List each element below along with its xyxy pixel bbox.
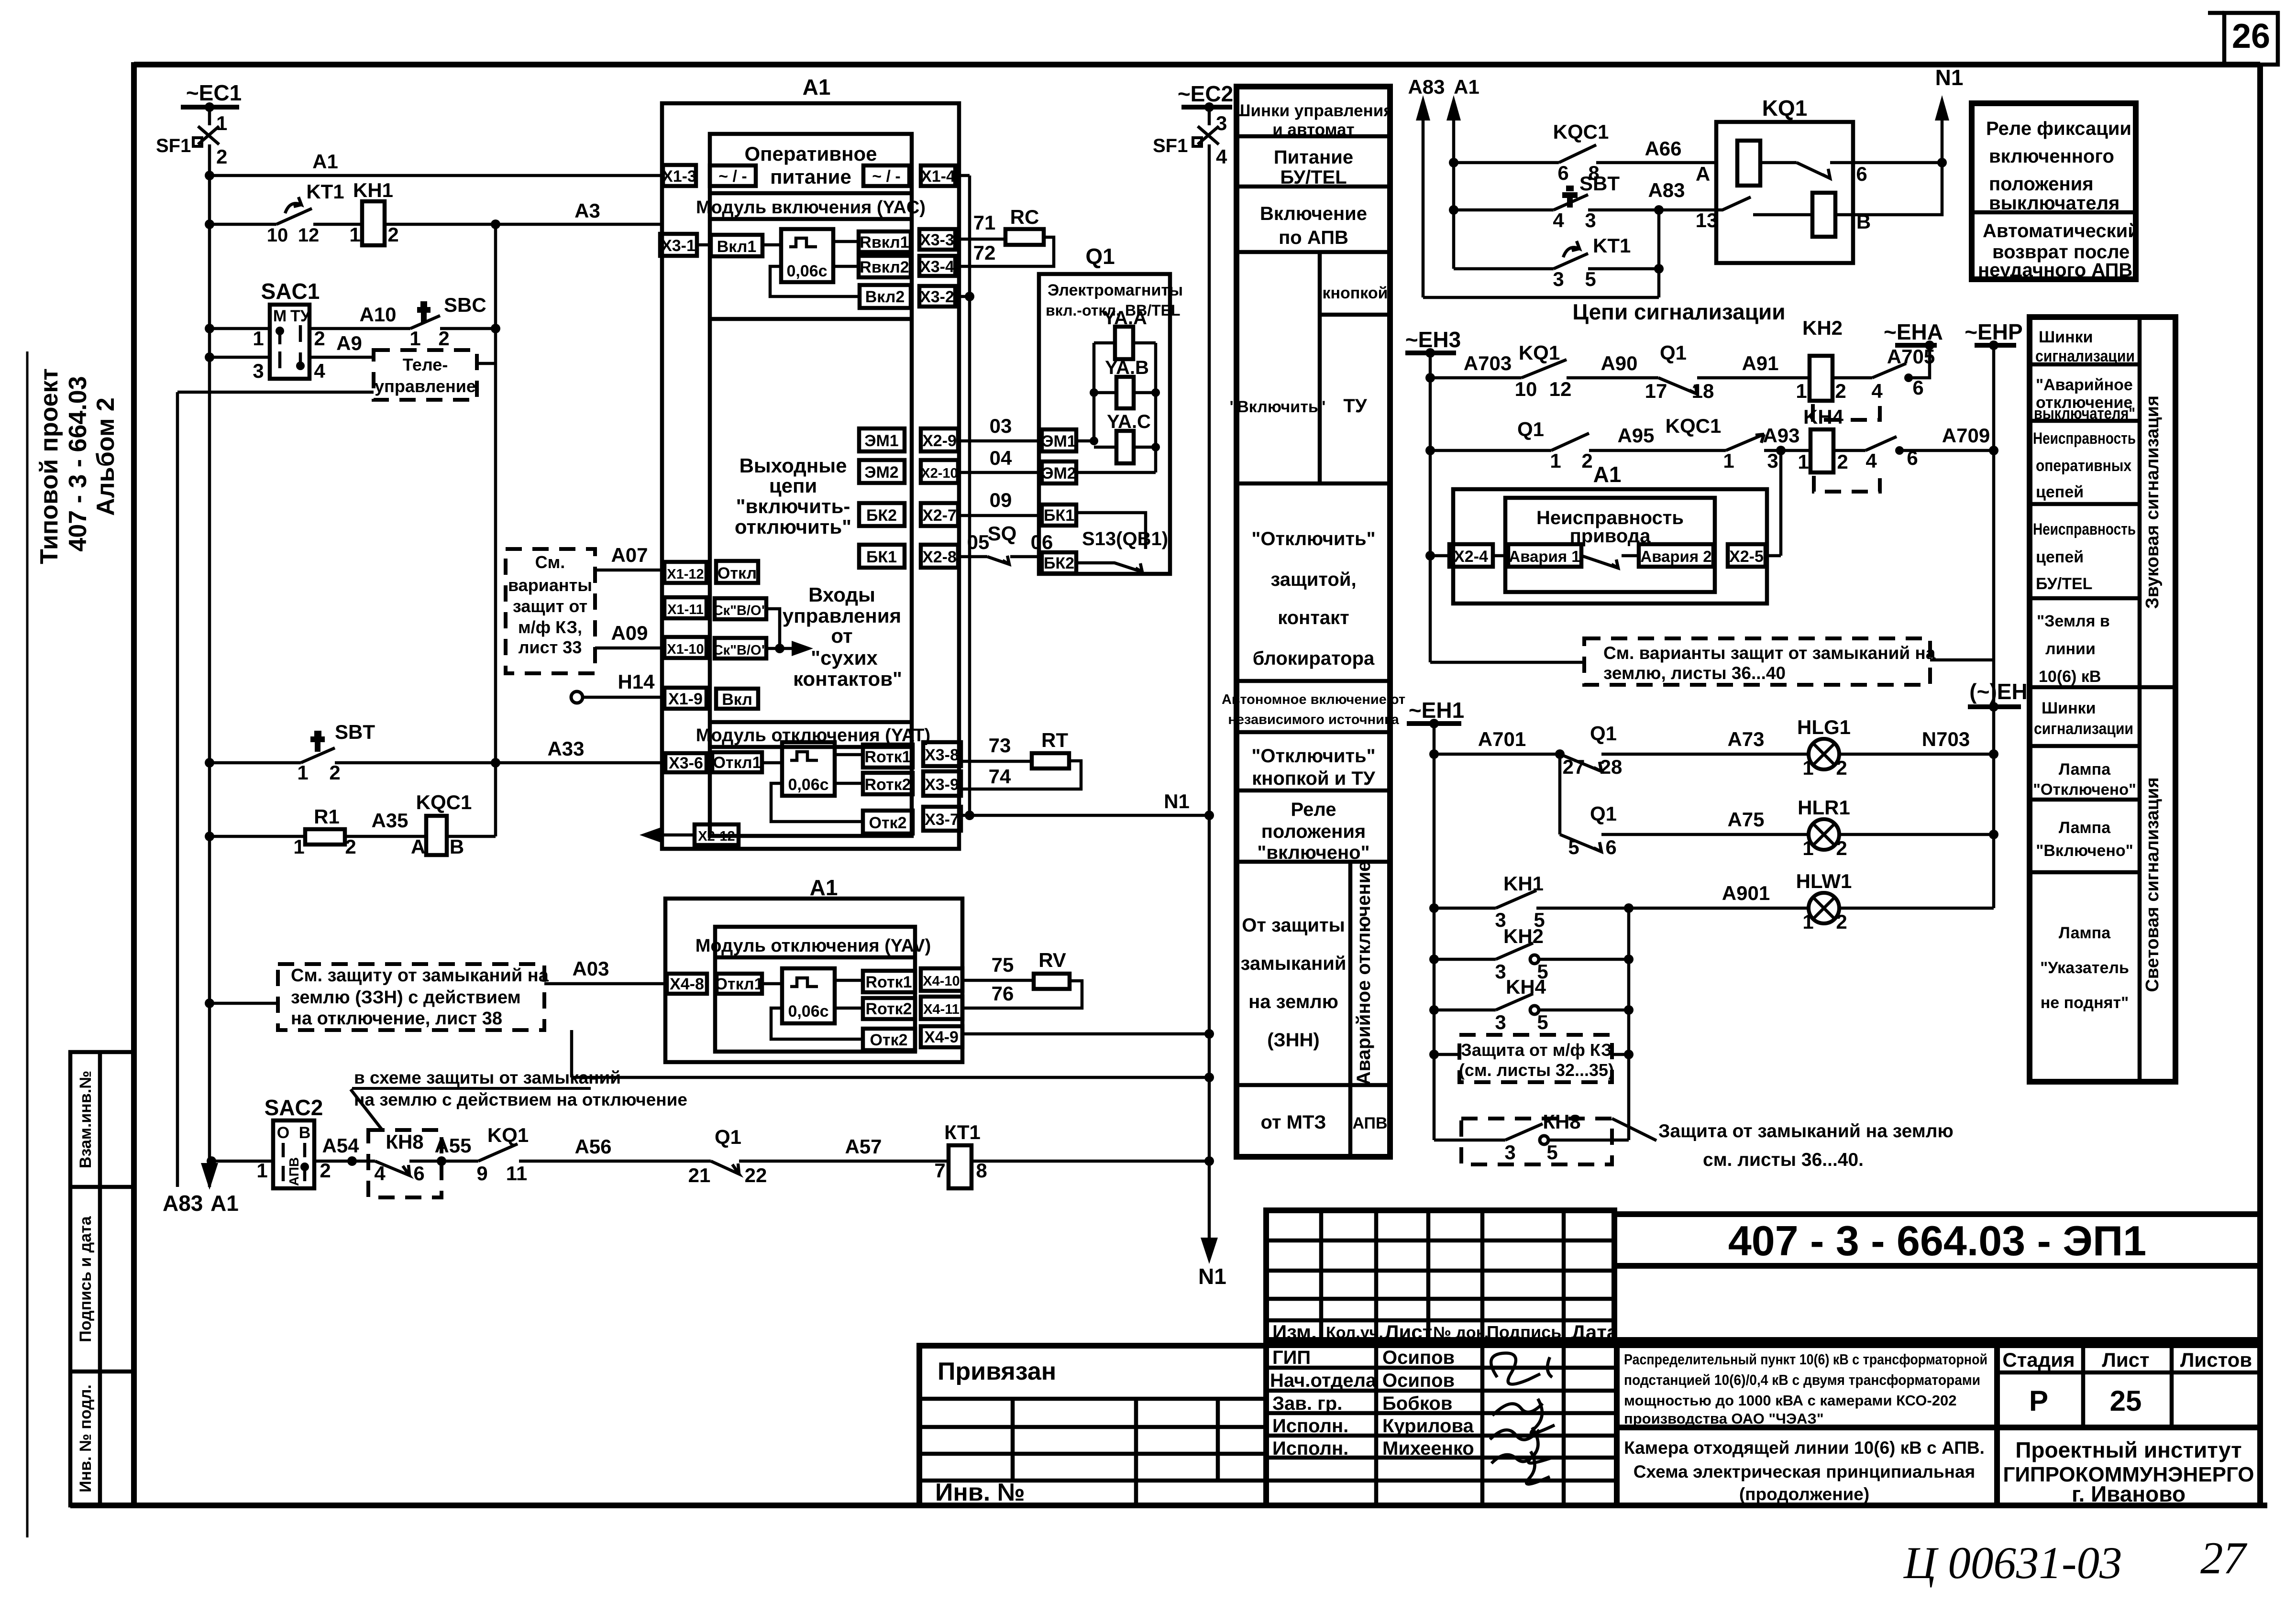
svg-text:кнопкой: кнопкой <box>1322 284 1388 302</box>
svg-text:76: 76 <box>992 982 1014 1005</box>
svg-text:A1: A1 <box>1454 76 1479 98</box>
svg-text:3: 3 <box>1495 960 1506 983</box>
title block: stage/sheet cells <box>1997 1345 2260 1506</box>
svg-text:2: 2 <box>216 145 227 168</box>
svg-text:X3-4: X3-4 <box>920 258 954 276</box>
svg-text:Курилова: Курилова <box>1382 1415 1474 1437</box>
fault contact Авария 1 / Авария 2 <box>1493 544 1713 568</box>
svg-text:КН8: КН8 <box>1543 1110 1580 1133</box>
svg-text:Михеенко: Михеенко <box>1382 1438 1474 1459</box>
svg-text:X3-8: X3-8 <box>925 746 959 764</box>
svg-text:28: 28 <box>1600 756 1623 778</box>
svg-text:4: 4 <box>374 1162 386 1185</box>
Q1 internal terminal БК2 + S13(QB1) contact <box>1042 528 1168 573</box>
lamp HLW1 row A901 + contact KH1 <box>1429 870 1994 933</box>
svg-text:N1: N1 <box>1935 65 1964 90</box>
wire SAC1 row2 to telecontrol <box>205 332 374 362</box>
svg-text:KH4: KH4 <box>1803 406 1844 428</box>
svg-text:"Аварийное: "Аварийное <box>2036 376 2133 394</box>
svg-text:Аварийное отключение: Аварийное отключение <box>1353 861 1374 1086</box>
svg-text:ЭМ2: ЭМ2 <box>864 463 898 482</box>
svg-text:A95: A95 <box>1617 424 1654 447</box>
svg-text:Лист: Лист <box>2102 1349 2149 1371</box>
rotated project designation at sheet left <box>35 368 120 564</box>
svg-text:~EC2: ~EC2 <box>1178 81 1233 106</box>
svg-text:3: 3 <box>1495 1011 1506 1033</box>
svg-text:варианты: варианты <box>508 575 592 595</box>
svg-text:A91: A91 <box>1742 352 1778 374</box>
svg-text:Лампа: Лампа <box>2059 819 2111 837</box>
contact KH2 row <box>1429 925 1634 983</box>
svg-text:3: 3 <box>1767 450 1778 472</box>
svg-text:6: 6 <box>1856 163 1867 185</box>
svg-text:SBT: SBT <box>335 721 375 743</box>
svg-text:(~)EH: (~)EH <box>1969 679 2027 704</box>
svg-text:Подпись: Подпись <box>1487 1322 1561 1342</box>
svg-text:12: 12 <box>298 225 320 246</box>
svg-text:X1-10: X1-10 <box>667 642 704 657</box>
svg-text:A66: A66 <box>1645 137 1681 160</box>
resistor RC loop <box>955 206 1054 266</box>
left long vertical (A83 net from telecontrol) <box>163 392 203 1216</box>
svg-text:Стадия: Стадия <box>2002 1349 2075 1371</box>
svg-text:М: М <box>273 307 287 325</box>
resistor RT loop <box>961 729 1081 789</box>
node ~EC2 supply <box>1178 81 1233 125</box>
svg-text:0,06с: 0,06с <box>788 776 828 794</box>
svg-text:2: 2 <box>1836 757 1847 779</box>
svg-text:"сухих: "сухих <box>811 647 878 669</box>
node ~EH1 supply <box>1407 698 1464 1140</box>
svg-text:27: 27 <box>2200 1533 2248 1583</box>
terminal X1-10 Ск"В/О" wire A09 <box>595 622 813 658</box>
svg-text:6: 6 <box>413 1162 424 1185</box>
svg-text:Ц 00631-03: Ц 00631-03 <box>1903 1537 2122 1588</box>
svg-text:KQ1: KQ1 <box>1762 96 1808 121</box>
svg-text:SQ: SQ <box>988 522 1017 545</box>
pulse timer box 0,06с (YAV) <box>771 968 863 1039</box>
svg-text:A10: A10 <box>359 303 396 326</box>
svg-text:Q1: Q1 <box>1085 244 1115 269</box>
output boxes Rотк1 Rотк2 Отк2 (YAV) <box>863 971 915 1050</box>
terminal X1-11 Ск"В/О" <box>664 597 780 648</box>
svg-text:Инв. № подл.: Инв. № подл. <box>77 1384 95 1492</box>
terminal X1-4 <box>921 165 970 186</box>
svg-text:SF1: SF1 <box>1153 135 1188 156</box>
svg-text:X4-8: X4-8 <box>670 975 704 993</box>
svg-text:KT1: KT1 <box>1593 234 1631 257</box>
svg-text:A07: A07 <box>611 544 648 566</box>
svg-text:Rвкл1: Rвкл1 <box>860 233 909 252</box>
terminal pair ЭМ1 / X2-9 wire 03 <box>859 415 1042 451</box>
svg-text:X3-9: X3-9 <box>925 776 959 794</box>
svg-text:БУ/TEL: БУ/TEL <box>2036 575 2092 593</box>
svg-text:не поднят": не поднят" <box>2041 994 2129 1012</box>
svg-text:4: 4 <box>1871 380 1883 402</box>
svg-text:A33: A33 <box>547 737 584 760</box>
title block: document description cells <box>1617 1345 2260 1505</box>
svg-text:1: 1 <box>216 112 227 134</box>
left attach block Привязан / Инв № <box>919 1346 1266 1506</box>
svg-text:Зав. гр.: Зав. гр. <box>1272 1393 1342 1414</box>
svg-text:KH4: KH4 <box>1506 976 1546 998</box>
svg-text:KQ1: KQ1 <box>1519 341 1560 364</box>
svg-text:A35: A35 <box>371 809 408 832</box>
svg-text:0,06с: 0,06с <box>786 262 827 280</box>
svg-text:О: О <box>277 1124 289 1142</box>
svg-text:Rотк1: Rотк1 <box>865 973 912 991</box>
svg-text:Реле фиксации: Реле фиксации <box>1986 118 2131 139</box>
svg-text:4: 4 <box>1216 145 1227 168</box>
svg-text:17: 17 <box>1645 380 1667 402</box>
svg-text:1: 1 <box>1802 757 1813 779</box>
contact Q1 (bottom row) <box>688 1126 949 1186</box>
svg-text:R1: R1 <box>314 805 340 828</box>
svg-text:Схема электрическая принципиал: Схема электрическая принципиальная <box>1634 1462 1975 1481</box>
svg-text:Теле-: Теле- <box>403 355 448 374</box>
svg-text:Авария 2: Авария 2 <box>1640 548 1711 565</box>
svg-text:сигнализации: сигнализации <box>2035 347 2135 365</box>
svg-text:Распределительный пункт 10(6): Распределительный пункт 10(6) кВ с транс… <box>1624 1351 1987 1368</box>
svg-text:04: 04 <box>990 447 1012 469</box>
svg-text:2: 2 <box>1835 380 1846 402</box>
svg-text:A93: A93 <box>1763 424 1799 447</box>
node (~)EH <box>1968 679 2028 712</box>
terminal X3-6 Откл1 <box>665 752 782 772</box>
svg-text:землю, листы 36...40: землю, листы 36...40 <box>1603 663 1786 683</box>
note text в схеме защиты <box>351 1068 687 1130</box>
svg-text:73: 73 <box>989 734 1011 757</box>
svg-text:~EHA: ~EHA <box>1884 319 1943 344</box>
svg-text:A55: A55 <box>434 1134 471 1157</box>
title block: designation cell 407-3-664.03-ЭП1 <box>1614 1214 2260 1340</box>
left stamp column (Взам.инв.№ / Подпись и дата / Инв.№ подл.) <box>70 1052 134 1505</box>
svg-text:Инв. №: Инв. № <box>935 1479 1025 1506</box>
svg-text:SBC: SBC <box>444 294 486 316</box>
svg-text:A56: A56 <box>574 1135 611 1158</box>
control inputs: terminal X1-12 Откл wire A07 <box>595 544 758 583</box>
svg-text:от: от <box>831 625 852 647</box>
svg-text:"Включено": "Включено" <box>2036 842 2133 860</box>
svg-text:RT: RT <box>1041 729 1068 751</box>
svg-text:X2-5: X2-5 <box>1729 548 1764 566</box>
svg-text:Q1: Q1 <box>1590 802 1617 825</box>
svg-text:X3-1: X3-1 <box>661 237 695 255</box>
svg-text:10: 10 <box>267 225 288 246</box>
svg-text:положения: положения <box>1261 821 1366 842</box>
svg-text:B: B <box>450 835 464 858</box>
svg-text:A57: A57 <box>845 1135 882 1158</box>
svg-text:SAC1: SAC1 <box>261 279 320 304</box>
svg-text:Модуль отключения (YAV): Модуль отключения (YAV) <box>695 936 931 956</box>
terminals X4-10 X4-11 X4-9 <box>921 968 962 1047</box>
svg-text:Подпись и дата: Подпись и дата <box>77 1216 95 1342</box>
svg-text:KQC1: KQC1 <box>1553 121 1609 143</box>
svg-text:KQC1: KQC1 <box>416 791 472 813</box>
right signal table <box>2030 317 2175 1082</box>
svg-text:4: 4 <box>314 360 325 382</box>
svg-text:"Земля в: "Земля в <box>2037 612 2110 630</box>
svg-text:Защита от замыканий на землю: Защита от замыканий на землю <box>1658 1121 1954 1141</box>
contact KH4 4/6 + A709 <box>1865 424 1998 472</box>
svg-text:X2-8: X2-8 <box>922 548 957 566</box>
svg-text:RC: RC <box>1010 206 1039 228</box>
svg-text:Включение: Включение <box>1260 203 1367 224</box>
svg-text:Реле: Реле <box>1291 799 1336 820</box>
svg-text:Цепи сигнализации: Цепи сигнализации <box>1572 299 1785 324</box>
svg-text:ГИП: ГИП <box>1272 1347 1311 1368</box>
svg-text:Проектный институт: Проектный институт <box>2015 1437 2241 1462</box>
dashed protection box м/ф КЗ <box>1429 1035 1634 1082</box>
pulse timer box 0,06с (YAC) <box>770 229 860 296</box>
svg-text:1: 1 <box>293 835 304 858</box>
contact KT1 row <box>1423 210 1664 297</box>
svg-text:Q1: Q1 <box>1660 341 1687 364</box>
svg-text:HLG1: HLG1 <box>1797 716 1851 738</box>
svg-text:Защита от м/ф КЗ: Защита от м/ф КЗ <box>1461 1040 1612 1060</box>
svg-text:защит от: защит от <box>513 596 587 616</box>
latch relay note box <box>1972 103 2140 281</box>
svg-text:Камера отходящей линии 10(6) к: Камера отходящей линии 10(6) кВ с АПВ. <box>1624 1438 1985 1458</box>
svg-text:Вкл: Вкл <box>722 691 752 709</box>
svg-text:X4-10: X4-10 <box>923 974 960 989</box>
svg-text:питание: питание <box>770 165 851 188</box>
dry contacts text <box>783 583 902 690</box>
dashed box KH8 contact <box>1434 1110 1629 1164</box>
svg-text:Rотк2: Rотк2 <box>865 1000 912 1018</box>
signatures (squiggles) <box>1491 1353 1552 1384</box>
node ~EH3 supply <box>1405 327 1461 662</box>
svg-text:09: 09 <box>990 489 1012 511</box>
terminal X3-1 and Вкл1 <box>660 234 781 256</box>
svg-text:Электромагниты: Электромагниты <box>1048 281 1183 299</box>
svg-text:Вкл2: Вкл2 <box>865 288 905 306</box>
svg-text:3: 3 <box>253 360 264 382</box>
svg-text:10(6) кВ: 10(6) кВ <box>2039 668 2101 686</box>
svg-text:A75: A75 <box>1727 808 1764 831</box>
svg-text:2: 2 <box>314 327 325 350</box>
svg-text:замыканий: замыканий <box>1241 953 1347 974</box>
left long vertical (A1 net) <box>208 176 211 1187</box>
svg-text:6: 6 <box>1912 376 1923 399</box>
wire SAC1 row1 + button SBC <box>205 294 500 350</box>
function table column <box>1222 87 1405 1157</box>
relay KQ1 box with two coils <box>1696 96 1947 263</box>
svg-text:выключателя": выключателя" <box>2034 405 2135 423</box>
svg-text:Осипов: Осипов <box>1382 1347 1455 1368</box>
svg-text:оперативных: оперативных <box>2036 457 2131 475</box>
contact Q1 1/2 row2 <box>1425 418 1726 472</box>
svg-text:Листов: Листов <box>2180 1349 2252 1371</box>
drive fault block A1 <box>1453 462 1767 603</box>
svg-text:7: 7 <box>934 1159 945 1182</box>
N1 vertical upper part from SF1 <box>1208 144 1211 815</box>
svg-text:защитой,: защитой, <box>1270 569 1356 590</box>
svg-text:управления: управления <box>783 604 901 627</box>
svg-text:№ док.: № док. <box>1433 1324 1489 1342</box>
relay coil KQC1 (left) <box>411 791 496 858</box>
svg-text:Rотк1: Rотк1 <box>864 748 911 766</box>
svg-text:1: 1 <box>349 223 360 246</box>
contact KQC1 1/3 row2 <box>1666 415 1810 472</box>
svg-text:Отк2: Отк2 <box>869 814 906 832</box>
svg-text:A1: A1 <box>312 150 338 173</box>
svg-text:от МТЗ: от МТЗ <box>1261 1112 1326 1133</box>
svg-text:X4-11: X4-11 <box>923 1002 960 1017</box>
Q1 internal terminal ЭМ2 <box>1042 461 1156 483</box>
svg-text:БК1: БК1 <box>1044 506 1074 525</box>
svg-text:(продолжение): (продолжение) <box>1739 1484 1869 1504</box>
svg-text:положения: положения <box>1989 174 2094 195</box>
svg-text:X2-12: X2-12 <box>698 829 735 844</box>
svg-text:A1: A1 <box>1593 462 1622 487</box>
svg-text:БК1: БК1 <box>866 548 897 566</box>
svg-text:2: 2 <box>1581 450 1592 472</box>
svg-text:землю (ЗЗН) с действием: землю (ЗЗН) с действием <box>291 988 521 1008</box>
svg-text:"включено": "включено" <box>1257 842 1369 863</box>
svg-text:2: 2 <box>1836 837 1847 859</box>
switch SAC2 <box>207 1095 359 1188</box>
svg-text:"Отключить": "Отключить" <box>1251 746 1375 767</box>
svg-text:N1: N1 <box>1198 1264 1226 1289</box>
wire vertical from X1-4 <box>968 176 971 815</box>
svg-text:на землю с действием на отключ: на землю с действием на отключение <box>354 1090 687 1109</box>
svg-text:Дата: Дата <box>1571 1321 1618 1343</box>
svg-text:25: 25 <box>2110 1385 2142 1417</box>
svg-text:Взам.инв.№: Взам.инв.№ <box>77 1071 95 1168</box>
AC/DC box left <box>710 165 756 186</box>
svg-text:2: 2 <box>1836 911 1847 933</box>
svg-text:Бобков: Бобков <box>1382 1393 1452 1414</box>
svg-text:KH1: KH1 <box>353 179 393 201</box>
svg-text:Rвкл2: Rвкл2 <box>860 258 909 276</box>
dashed note box ЗЗН <box>205 957 1214 1082</box>
svg-text:3: 3 <box>1504 1141 1515 1163</box>
lamp HLG1 row A701 <box>1429 716 1998 779</box>
svg-text:Лампа: Лампа <box>2059 924 2111 942</box>
svg-text:Привязан: Привязан <box>938 1358 1056 1385</box>
svg-text:03: 03 <box>990 415 1012 437</box>
svg-text:72: 72 <box>973 241 996 264</box>
svg-text:A1: A1 <box>803 75 831 99</box>
svg-text:Звуковая сигнализация: Звуковая сигнализация <box>2142 395 2163 609</box>
sheet number box 26 <box>2208 13 2278 65</box>
svg-text:1: 1 <box>1798 450 1809 473</box>
contact Q1 17/18 <box>1645 341 1810 402</box>
svg-text:9: 9 <box>476 1162 487 1185</box>
svg-text:кнопкой и ТУ: кнопкой и ТУ <box>1252 768 1376 789</box>
svg-text:3: 3 <box>1553 268 1564 290</box>
middle vertical x=1036 <box>494 224 497 836</box>
svg-text:A9: A9 <box>336 332 362 354</box>
svg-text:Питание: Питание <box>1274 147 1353 168</box>
svg-text:БК2: БК2 <box>866 506 897 525</box>
wire X4-9 to N1 bus <box>962 1029 1214 1039</box>
svg-text:407 - 3 - 664.03 - ЭП1: 407 - 3 - 664.03 - ЭП1 <box>1728 1217 2146 1264</box>
svg-text:Кол.уч.: Кол.уч. <box>1326 1324 1383 1342</box>
svg-text:БУ/TEL: БУ/TEL <box>1280 167 1347 188</box>
svg-text:KH1: KH1 <box>1503 872 1544 895</box>
contact KT1 (time relay contact) row <box>205 180 362 246</box>
svg-text:выключателя: выключателя <box>1989 193 2119 214</box>
svg-text:Нач.отдела: Нач.отдела <box>1270 1370 1377 1391</box>
svg-text:05: 05 <box>967 531 990 553</box>
svg-text:Лист: Лист <box>1385 1321 1432 1343</box>
svg-text:1: 1 <box>297 761 308 784</box>
node ~EC1 supply <box>181 80 242 125</box>
svg-text:неудачного АПВ: неудачного АПВ <box>1978 260 2132 281</box>
terminals X3-3 X3-4 X3-2 <box>919 229 955 307</box>
svg-text:Оперативное: Оперативное <box>745 143 877 165</box>
svg-text:Типовой проект: Типовой проект <box>35 368 63 564</box>
svg-text:X1-11: X1-11 <box>667 602 704 617</box>
svg-text:(ЗНН): (ЗНН) <box>1267 1030 1319 1051</box>
svg-text:SF1: SF1 <box>156 135 191 156</box>
svg-text:Q1: Q1 <box>1590 722 1617 745</box>
svg-text:26: 26 <box>2232 17 2270 55</box>
svg-text:0,06с: 0,06с <box>788 1002 828 1020</box>
svg-text:A701: A701 <box>1478 728 1526 750</box>
svg-text:X3-2: X3-2 <box>920 288 954 306</box>
svg-text:X1-3: X1-3 <box>662 167 696 186</box>
svg-text:1: 1 <box>409 327 420 350</box>
svg-text:A: A <box>1696 163 1710 185</box>
svg-text:KT1: KT1 <box>306 180 344 203</box>
svg-text:в схеме защиты от замыканий: в схеме защиты от замыканий <box>354 1068 621 1087</box>
svg-text:См.: См. <box>535 552 565 572</box>
svg-text:74: 74 <box>989 765 1011 788</box>
svg-text:блокиратора: блокиратора <box>1253 648 1375 669</box>
terminals X3-8 X3-9 X3-7 <box>923 742 961 831</box>
svg-text:Q1: Q1 <box>1517 418 1544 440</box>
svg-text:ЭМ1: ЭМ1 <box>864 432 898 450</box>
terminal pair ЭМ2 / X2-10 wire 04 <box>859 447 1042 483</box>
sheet left edge line <box>26 351 29 1537</box>
svg-text:контакт: контакт <box>1278 607 1349 628</box>
terminal X2-5 <box>1728 544 1781 567</box>
lamp HLR1 row A75 <box>1560 754 1998 859</box>
svg-text:Шинки: Шинки <box>2039 328 2093 346</box>
svg-text:6: 6 <box>1605 836 1616 858</box>
svg-text:~ / -: ~ / - <box>872 167 901 186</box>
svg-text:цепи: цепи <box>769 474 817 497</box>
ground fault note with leader <box>1612 1119 1954 1170</box>
A1 inner module box <box>696 134 926 836</box>
X3-2 wire junction <box>955 292 974 301</box>
relay coil KH4 <box>1798 406 1880 492</box>
electromagnet YA.B <box>1105 357 1149 408</box>
svg-text:Неисправность: Неисправность <box>2033 429 2136 448</box>
svg-text:См. варианты защит от замыкани: См. варианты защит от замыканий на <box>1603 643 1936 663</box>
svg-text:Исполн.: Исполн. <box>1272 1415 1348 1437</box>
svg-text:м/ф КЗ,: м/ф КЗ, <box>518 617 582 637</box>
svg-text:Входы: Входы <box>808 583 875 606</box>
svg-text:сигнализации: сигнализации <box>2034 720 2133 738</box>
svg-text:1: 1 <box>1550 450 1561 472</box>
svg-text:06: 06 <box>1031 531 1053 553</box>
svg-text:Исполн.: Исполн. <box>1272 1438 1348 1459</box>
svg-text:3: 3 <box>1216 112 1227 134</box>
terminal X2-4 <box>1425 544 1493 567</box>
contact KQC1 4/6 to EHA <box>1871 345 1935 402</box>
ground-fault variants dashed note <box>1430 638 1994 685</box>
svg-text:75: 75 <box>992 954 1014 976</box>
arrow A1 bottom <box>201 1163 239 1216</box>
svg-text:A83: A83 <box>1408 76 1445 98</box>
breaker SF1 (left pole) <box>156 112 227 176</box>
svg-text:X2-4: X2-4 <box>1454 548 1488 566</box>
svg-text:См. защиту от замыканий на: См. защиту от замыканий на <box>291 966 549 986</box>
